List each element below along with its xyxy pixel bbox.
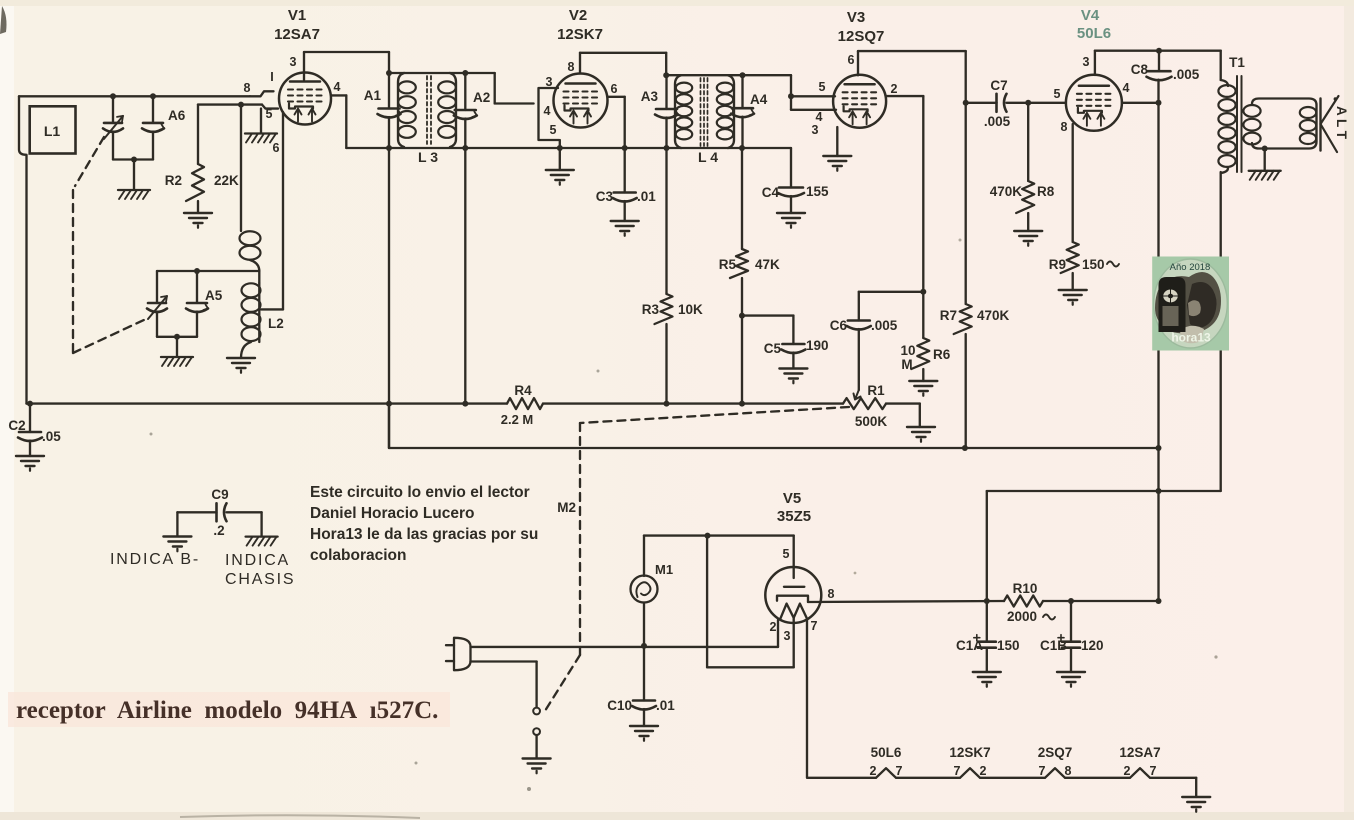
wire R2 top to V1 pin5 (198, 102, 278, 109)
wire V2 pin8 plate to L4 (580, 53, 666, 75)
capacitor A2 (454, 90, 490, 119)
wire L3 top rail (386, 70, 495, 76)
wire L3 to V2 grid (495, 73, 534, 104)
wire C2 top lead (29, 404, 31, 432)
svg-text:10K: 10K (678, 302, 703, 317)
ground C1A (973, 672, 1001, 687)
wire plug top lead to V5 pin2 (471, 646, 779, 648)
svg-text:Año 2018: Año 2018 (1170, 262, 1211, 273)
core L3 (418, 76, 438, 165)
inductor grid coil (240, 231, 261, 260)
svg-text:T1: T1 (1229, 55, 1245, 70)
svg-text:INDICA B-: INDICA B- (110, 551, 200, 568)
wire L4 top rail (663, 72, 791, 78)
dashed gang link A6-A5 (73, 137, 146, 353)
switch M2 contacts (533, 708, 540, 735)
svg-text:M1: M1 (655, 562, 673, 577)
svg-text:5: 5 (550, 123, 557, 137)
svg-text:6: 6 (848, 53, 855, 67)
wire filament string (807, 768, 1196, 797)
wire oscillator grid lead (240, 105, 242, 231)
tube V4 50L6 (1066, 7, 1122, 131)
lamp M1 (631, 562, 674, 603)
svg-text:L 4: L 4 (698, 149, 718, 165)
svg-text:8: 8 (244, 81, 251, 95)
svg-text:5: 5 (783, 547, 790, 561)
svg-text:C5: C5 (764, 341, 782, 356)
svg-text:R9: R9 (1049, 257, 1066, 272)
ground R2 (184, 213, 212, 228)
svg-text:2: 2 (1124, 764, 1131, 778)
ground filament (1182, 797, 1210, 812)
svg-text:2.2 M: 2.2 M (501, 412, 534, 427)
ground V1 pin5 chassis (245, 134, 277, 143)
svg-text:50L6: 50L6 (871, 745, 902, 760)
inductor L3 secondary (438, 73, 456, 147)
svg-text:5: 5 (1054, 87, 1061, 101)
inductor T1 secondary (1243, 105, 1260, 144)
tube V2 12SK7 (554, 7, 608, 128)
svg-text:A6: A6 (168, 108, 186, 123)
svg-text:150: 150 (1082, 257, 1105, 272)
wire C3 bottom lead (624, 201, 626, 221)
tube V1 12SA7 (274, 7, 331, 125)
svg-text:I: I (270, 70, 273, 84)
ground T1 secondary (1249, 171, 1281, 180)
wire R6 bottom lead (922, 369, 924, 381)
capacitor C3 .01 (596, 189, 657, 204)
svg-text:R10: R10 (1013, 581, 1038, 596)
wire R2 top lead (197, 105, 199, 164)
wire V5 pin5 lead (793, 536, 795, 578)
svg-text:R5: R5 (719, 257, 737, 272)
wire switch to ground (535, 735, 537, 758)
wire A6 trimmer top lead (110, 93, 116, 123)
wire V3 pin6 plate up and over to R7 (858, 51, 966, 75)
wire C7 right lead to V4 grid (1007, 100, 1066, 106)
wire C6 to R1 wiper arrow (854, 329, 861, 400)
wire A1 vertical upper (388, 73, 390, 109)
inductor L4 primary (675, 75, 692, 148)
wire R9 bottom lead (1072, 273, 1074, 290)
wire V5 pin7 heater lead (806, 619, 808, 778)
ground C9 B- (163, 537, 191, 552)
wire C9 right lead (260, 512, 262, 536)
wire speaker frame (1252, 99, 1317, 149)
svg-text:R8: R8 (1037, 184, 1055, 199)
capacitor C8 .005 (1131, 62, 1200, 82)
wire B- return rail (389, 447, 1159, 449)
svg-text:2: 2 (870, 764, 877, 778)
svg-text:7: 7 (1039, 764, 1046, 778)
svg-text:A L T: A L T (1334, 106, 1349, 140)
svg-text:10: 10 (900, 343, 915, 358)
ground A5 (161, 357, 193, 366)
ground C10 (630, 726, 658, 741)
wire A2 vertical upper (464, 73, 466, 110)
svg-text:2000: 2000 (1007, 609, 1037, 624)
svg-text:2: 2 (891, 82, 898, 96)
svg-text:R6: R6 (933, 347, 951, 362)
svg-text:C9: C9 (211, 487, 228, 502)
wire T1 primary top lead (1220, 51, 1222, 80)
V1 pin labels (244, 55, 341, 155)
resistor R9 150 (1049, 242, 1119, 273)
wire V5 pin2 heater stub (777, 620, 779, 647)
wire R1 right leg to ground (886, 404, 920, 427)
V3 pin labels (812, 53, 898, 137)
svg-text:47K: 47K (755, 257, 780, 272)
svg-text:V2: V2 (569, 7, 587, 24)
svg-text:7: 7 (954, 764, 961, 778)
svg-text:8: 8 (1061, 120, 1068, 134)
capacitor A6 (142, 108, 186, 132)
wire L2 bottom lead (241, 342, 251, 358)
ground C3 (611, 221, 639, 236)
svg-text:12SK7: 12SK7 (949, 745, 990, 760)
transformer T1 label (1229, 55, 1245, 70)
wire V4 pin3 plate top (1095, 48, 1221, 75)
ground R1 (907, 427, 935, 442)
ground V3 cathode (823, 156, 851, 171)
trimmer capacitor A5a (147, 296, 167, 319)
capacitor C1B 120 (1040, 635, 1104, 653)
wire C8 top lead (1158, 51, 1160, 71)
capacitor C4 155 (762, 184, 829, 200)
svg-text:50L6: 50L6 (1077, 25, 1111, 42)
svg-text:V3: V3 (847, 9, 865, 26)
svg-text:12SK7: 12SK7 (557, 26, 603, 43)
wire A4 vertical lower (741, 117, 743, 148)
wire R5 node to AVC rail (741, 316, 743, 404)
svg-text:V5: V5 (783, 490, 801, 507)
resistor R2 22K (165, 164, 239, 201)
wire L4 top rail corner to V3 diode pins (788, 75, 794, 110)
wire A5 top bar (157, 268, 259, 303)
svg-text:3: 3 (784, 629, 791, 643)
svg-text:12SQ7: 12SQ7 (838, 28, 885, 45)
svg-text:R4: R4 (514, 383, 532, 398)
svg-text:190: 190 (806, 338, 829, 353)
ground V2 cathode (546, 170, 574, 185)
svg-text:7: 7 (811, 619, 818, 633)
capacitor C1A 150 (956, 635, 1020, 653)
text INDICA CHASIS (225, 552, 295, 588)
wire C5 branch (742, 316, 793, 344)
wire M1 bottom lead (641, 603, 647, 649)
ground R9 (1059, 290, 1087, 305)
svg-text:V4: V4 (1081, 7, 1100, 24)
wire V3 pin5 lead (791, 95, 835, 97)
resistor R3 10K (642, 293, 703, 324)
wire R7 vertical upper (963, 51, 969, 304)
svg-text:L1: L1 (44, 123, 61, 139)
resistor R7 470K (940, 304, 1010, 334)
resistor R5 47K (719, 148, 780, 278)
svg-text:4: 4 (816, 110, 823, 124)
wire V3 pin3 cathode ground lead (836, 127, 838, 156)
wire V1 pin4 to L3 bottom (331, 95, 346, 148)
svg-text:Hora13 le da las gracias por s: Hora13 le da las gracias por su (310, 526, 538, 543)
V2 pin labels (544, 60, 618, 137)
dashed link M2 switch to R1 (543, 407, 849, 714)
wire B+ feed vertical to filter node (986, 491, 988, 601)
svg-text:C10: C10 (607, 698, 632, 713)
wire L3 leg to B- rail corner (388, 404, 390, 448)
wire C6 branch (859, 292, 924, 321)
core L4 (698, 78, 718, 165)
svg-text:A2: A2 (473, 90, 490, 105)
wire T1 secondary ground lead (1262, 146, 1268, 171)
text INDICA B- (110, 551, 200, 568)
text contributor note (310, 484, 538, 564)
V4 pin labels (1054, 55, 1130, 134)
svg-text:R2: R2 (165, 173, 182, 188)
V5 pin labels (770, 547, 835, 643)
svg-text:8: 8 (828, 587, 835, 601)
wire C4 bottom lead (790, 196, 792, 213)
wire C8 bottom long vertical (1156, 80, 1162, 604)
capacitor A3 (641, 89, 678, 118)
wire chassis rail y148 (346, 145, 791, 151)
svg-text:12SA7: 12SA7 (274, 26, 320, 43)
svg-text:.005: .005 (871, 318, 898, 333)
svg-text:hora13: hora13 (1171, 331, 1211, 345)
svg-text:3: 3 (812, 123, 819, 137)
svg-text:22K: 22K (214, 173, 239, 188)
capacitor A5 (186, 288, 223, 312)
wire plug bottom lead to switch (471, 662, 537, 708)
wire L2 tap to V1 cathode (261, 112, 283, 309)
svg-text:500K: 500K (855, 414, 888, 429)
svg-text:.01: .01 (656, 698, 675, 713)
wire AVC bus rail (27, 401, 844, 407)
wire antenna input top rail (19, 95, 250, 97)
svg-text:L2: L2 (268, 316, 284, 331)
svg-text:receptor Airline modelo 94H: receptor Airline modelo 94HA ı527C. (16, 697, 438, 724)
wire R3 bottom to AVC rail (665, 324, 667, 404)
wire C4 top lead (790, 148, 792, 188)
svg-text:12SA7: 12SA7 (1119, 745, 1160, 760)
logo hora13 (1152, 257, 1229, 351)
wire R8 top lead (1027, 103, 1029, 181)
svg-text:Daniel Horacio Lucero: Daniel Horacio Lucero (310, 505, 475, 522)
wire V1 pin5 ground lead (260, 109, 262, 133)
ground L2 (227, 358, 255, 373)
svg-text:INDICA: INDICA (225, 552, 290, 569)
inductor L1 antenna loop box (30, 106, 76, 153)
svg-text:.005: .005 (984, 114, 1011, 129)
svg-text:C6: C6 (830, 318, 848, 333)
svg-text:35Z5: 35Z5 (777, 508, 811, 525)
svg-text:C7: C7 (990, 78, 1007, 93)
svg-text:470K: 470K (977, 308, 1010, 323)
wire V2 cathode to ground (559, 140, 561, 170)
wire V5 pin3 cathode lead (707, 618, 794, 668)
resistor R4 2.2M (501, 383, 543, 427)
wire V2 pin6 to C3 node (608, 97, 625, 148)
svg-text:7: 7 (896, 764, 903, 778)
svg-text:A5: A5 (205, 288, 223, 303)
svg-text:120: 120 (1081, 638, 1104, 653)
wire R10 right lead (1043, 598, 1159, 604)
wire A3 vertical upper (665, 75, 667, 109)
svg-text:A4: A4 (750, 92, 768, 107)
resistor R1 500K potentiometer (843, 383, 887, 429)
wire C1A top lead (986, 601, 988, 642)
svg-text:155: 155 (806, 184, 829, 199)
svg-text:R1: R1 (867, 383, 885, 398)
svg-text:Este circuito lo envio el lect: Este circuito lo envio el lector (310, 484, 530, 501)
wire lamp shunt vertical (706, 536, 708, 668)
svg-text:C1B: C1B (1040, 638, 1067, 653)
wire R7 bottom to B- rail (962, 334, 968, 451)
AC plug (446, 638, 471, 670)
wire C9 left lead (176, 512, 178, 536)
svg-text:3: 3 (290, 55, 297, 69)
svg-text:4: 4 (1123, 81, 1130, 95)
svg-text:5: 5 (819, 80, 826, 94)
wire V1 pin8 stub (250, 91, 274, 96)
resistor R8 470K (990, 181, 1055, 213)
trimmer capacitor A6a (103, 116, 123, 139)
wire C7 left lead (966, 102, 997, 104)
capacitor C7 .005 (984, 78, 1011, 129)
ground C9 chassis (246, 537, 278, 546)
wire R8 bottom lead (1027, 213, 1029, 231)
wire A1 vertical lower / L3 left leg to AVC rail (388, 117, 390, 448)
svg-text:8: 8 (1065, 764, 1072, 778)
wire M1 top lead (643, 536, 645, 576)
speaker ALT cone (1321, 96, 1350, 152)
svg-text:colaboracion: colaboracion (310, 547, 406, 564)
wire V3 pin2 to C6/R6 node (886, 96, 926, 295)
ground R8 (1014, 231, 1042, 246)
svg-text:150: 150 (997, 638, 1020, 653)
svg-text:2SQ7: 2SQ7 (1038, 745, 1073, 760)
wire grid coil to L2 top (250, 260, 259, 271)
resistor R10 2000 (1004, 581, 1055, 624)
svg-text:L 3: L 3 (418, 149, 438, 165)
svg-text:7: 7 (1150, 764, 1157, 778)
resistor R6 10M (900, 292, 950, 372)
svg-text:.2: .2 (213, 523, 224, 538)
wire R9 top lead (1072, 124, 1074, 242)
inductor L3 primary (398, 73, 416, 147)
wire C3 top lead (624, 148, 626, 193)
svg-text:5: 5 (266, 107, 273, 121)
text filament tube labels (870, 745, 1161, 778)
svg-text:4: 4 (334, 80, 341, 94)
capacitor C10 .01 (607, 698, 675, 713)
inductor L2 oscillator coil (242, 271, 284, 342)
wire V4 pin4 to C8 line (1122, 100, 1162, 106)
wire V1 pin3 plate to L3 (304, 52, 389, 80)
wire C10 top lead (643, 646, 645, 701)
inductor T1 primary (1218, 80, 1235, 173)
wire R5 bottom to C5 node (739, 278, 745, 319)
capacitor C5 190 (764, 338, 829, 356)
ground C4 (777, 213, 805, 228)
svg-text:.05: .05 (42, 429, 61, 444)
svg-text:V1: V1 (288, 7, 306, 24)
svg-text:4: 4 (544, 104, 551, 118)
ground switch (523, 759, 551, 774)
svg-text:C3: C3 (596, 189, 614, 204)
wire B+ feed horizontal (987, 490, 1221, 492)
wire V3 pin4 lead (791, 109, 836, 111)
svg-text:CHASIS: CHASIS (225, 571, 295, 588)
svg-text:2: 2 (770, 620, 777, 634)
svg-text:6: 6 (611, 82, 618, 96)
svg-text:3: 3 (1083, 55, 1090, 69)
svg-text:C2: C2 (8, 418, 25, 433)
svg-text:R7: R7 (940, 308, 957, 323)
wire C1B bottom lead (1070, 648, 1072, 672)
svg-text:C1A: C1A (956, 638, 983, 653)
wire left edge vertical from antenna rail down to AVC rail (19, 96, 27, 403)
inductor speaker voice coil (1300, 107, 1316, 144)
wire C5 bottom lead (792, 353, 794, 369)
wire M1 top bar (644, 533, 794, 539)
svg-text:8: 8 (568, 60, 575, 74)
capacitor A1 (364, 88, 401, 118)
svg-text:A3: A3 (641, 89, 659, 104)
wire A6 bottom bar (113, 132, 153, 190)
svg-text:470K: 470K (990, 184, 1023, 199)
svg-text:M: M (901, 357, 912, 372)
wire C1A bottom lead (986, 648, 988, 672)
wire A3 vertical lower to R3 (665, 118, 667, 294)
svg-text:2: 2 (980, 764, 987, 778)
inductor L4 secondary (717, 75, 734, 148)
svg-text:C4: C4 (762, 185, 780, 200)
wire C2 bottom lead (29, 441, 31, 457)
wire A5 bottom bar (157, 312, 197, 357)
wire V2 grid bracket (539, 88, 560, 140)
svg-text:.005: .005 (1173, 67, 1200, 82)
svg-text:M2: M2 (557, 500, 576, 515)
ground A6 (118, 190, 150, 199)
wire T1 primary bottom B+ lead (1220, 172, 1222, 491)
tube V5 35Z5 (765, 490, 821, 623)
tube V3 12SQ7 (833, 9, 886, 128)
ground R6 (909, 381, 937, 396)
wire C1B top lead (1070, 601, 1072, 642)
svg-text:C8: C8 (1131, 62, 1149, 77)
svg-text:6: 6 (273, 141, 280, 155)
ground C1B (1057, 672, 1085, 687)
svg-text:A1: A1 (364, 88, 382, 103)
wire C10 bottom lead (643, 709, 645, 726)
capacitor C6 .005 (830, 318, 898, 333)
capacitor C2 .05 (8, 418, 61, 444)
capacitor C9 .2 (177, 487, 261, 538)
svg-text:R3: R3 (642, 302, 660, 317)
ground C5 (779, 369, 807, 384)
core T1 (1237, 76, 1242, 172)
wire A4 vertical upper (741, 75, 743, 108)
text caption receptor Airline (16, 697, 438, 724)
wire V5 pin8 plate lead to R10 (808, 598, 1004, 604)
capacitor A4 (731, 92, 768, 117)
wire R2 bottom lead (197, 201, 199, 213)
svg-text:.01: .01 (637, 189, 656, 204)
wire A2 vertical lower to AVC rail (464, 119, 466, 404)
ground C2 (16, 456, 44, 471)
wire A6 cap top lead (150, 93, 156, 123)
